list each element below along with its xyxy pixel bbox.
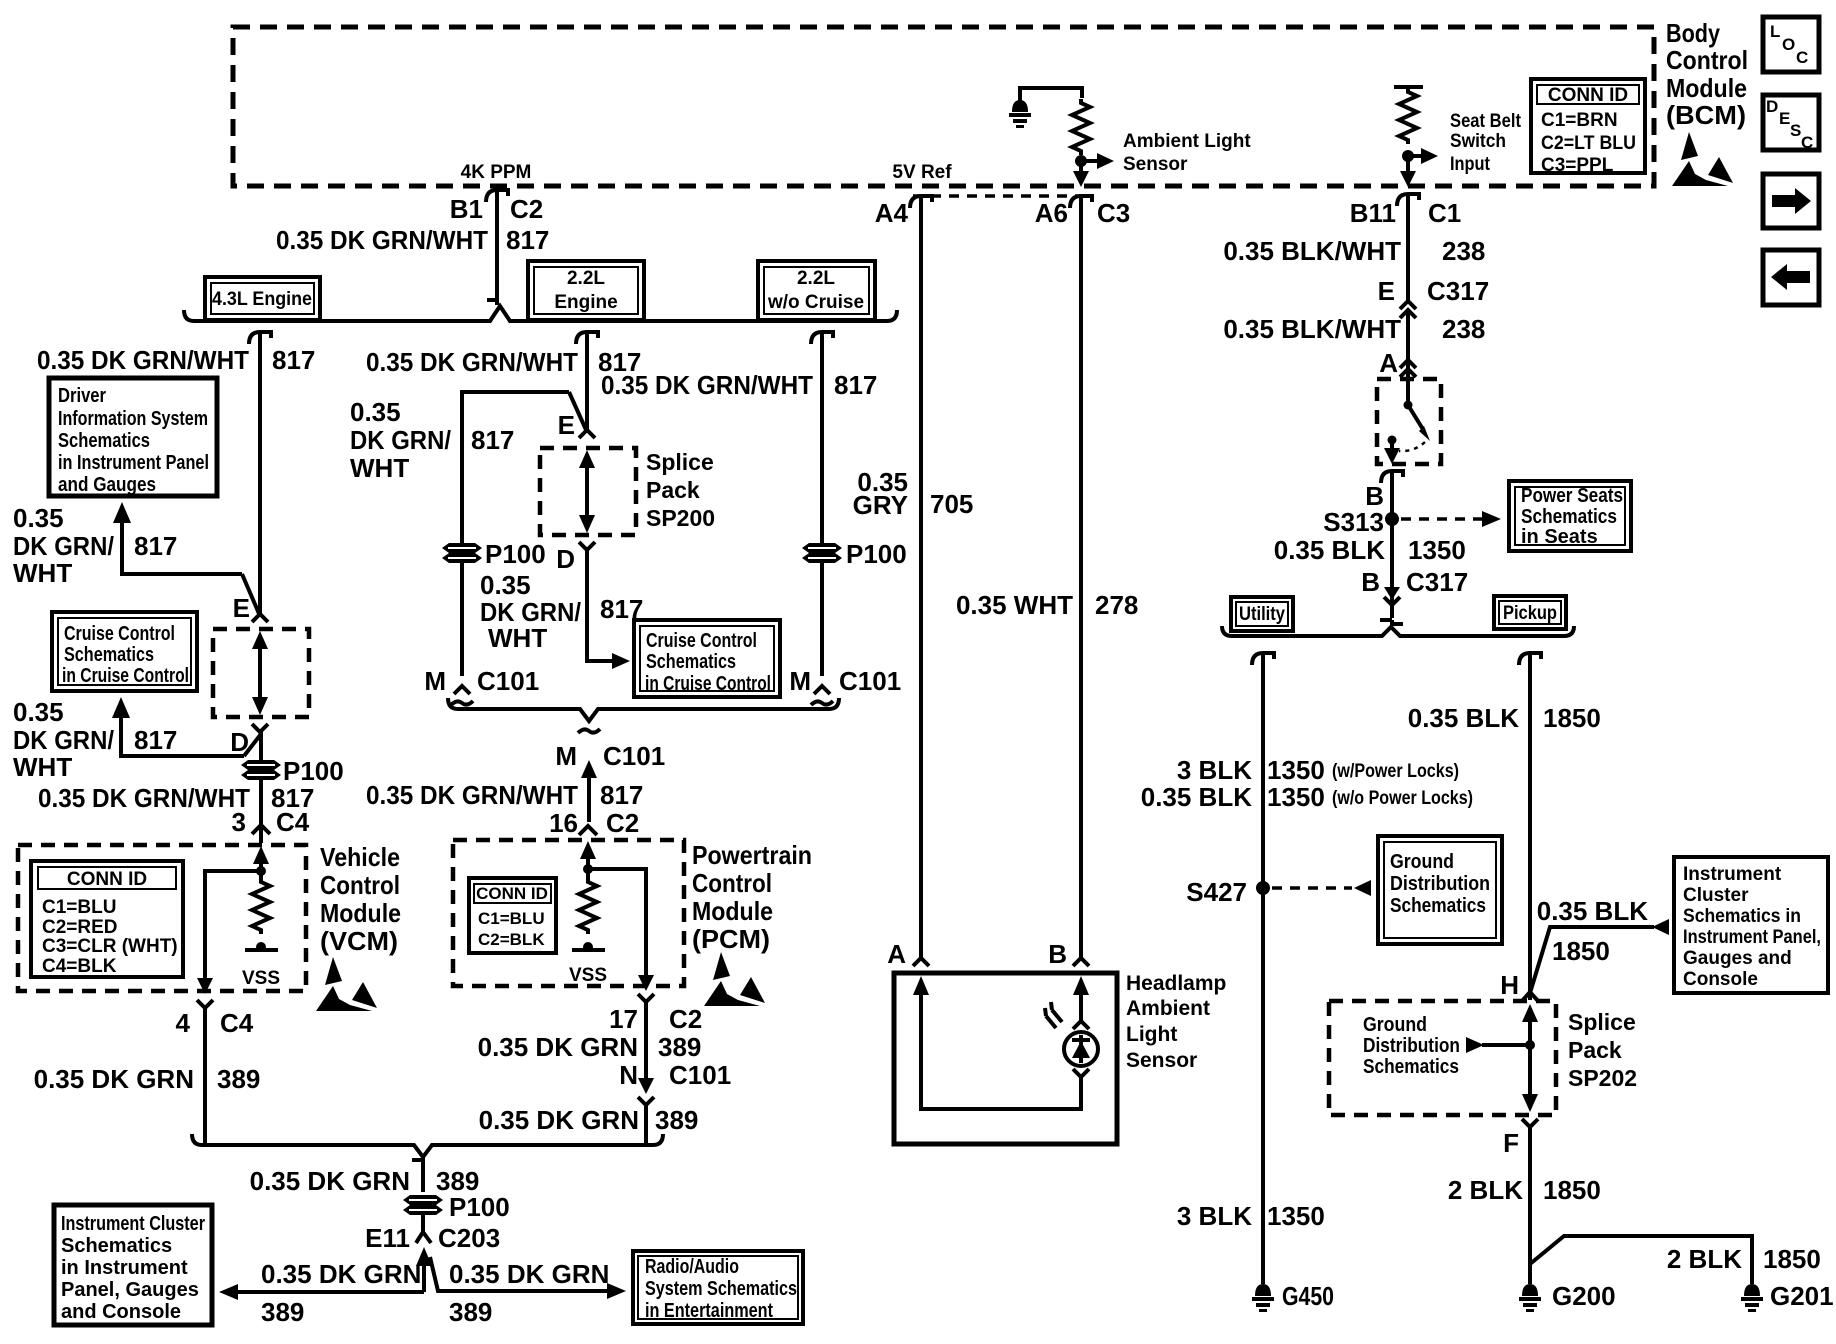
svg-text:(PCM): (PCM)	[692, 924, 770, 954]
svg-text:817: 817	[272, 345, 315, 375]
svg-text:Control: Control	[320, 870, 400, 900]
svg-text:C4: C4	[276, 807, 310, 837]
box Driver Information System Schematics	[49, 378, 217, 496]
svg-text:238: 238	[1442, 236, 1485, 266]
svg-text:Light: Light	[1126, 1023, 1177, 1046]
box Cruise Control Schematics (left)	[52, 612, 197, 691]
node: junction below seat belt resistor	[1402, 150, 1414, 162]
svg-text:389: 389	[658, 1032, 701, 1062]
seat belt switch dashed box	[1377, 379, 1441, 464]
svg-text:Sensor: Sensor	[1123, 154, 1188, 175]
svg-text:C101: C101	[477, 666, 539, 696]
svg-text:Panel, Gauges: Panel, Gauges	[61, 1279, 199, 1301]
svg-text:Schematics: Schematics	[1390, 895, 1486, 917]
svg-text:Utility: Utility	[1239, 604, 1285, 625]
box Utility	[1231, 597, 1293, 631]
svg-text:Splice: Splice	[646, 449, 714, 475]
svg-text:G450: G450	[1282, 1281, 1334, 1311]
brace: C101 gather	[448, 698, 839, 721]
connector fork M/C101 (middle branch)	[451, 686, 473, 705]
corner box right arrow	[1763, 174, 1819, 228]
ESD symbol (BCM)	[1672, 132, 1733, 186]
svg-text:Radio/Audio: Radio/Audio	[645, 1256, 739, 1278]
CONN ID table (PCM)	[469, 878, 556, 953]
chevron below B/C317	[1384, 597, 1400, 618]
svg-text:C317: C317	[1427, 276, 1489, 306]
arrow down at N/C101	[638, 1078, 654, 1094]
node A chevron (headlamp)	[913, 958, 929, 966]
svg-text:S427: S427	[1186, 877, 1247, 907]
wire gather to P100	[412, 1160, 423, 1192]
node: junction below ambient resistor	[1075, 155, 1087, 167]
svg-text:G201: G201	[1770, 1281, 1834, 1311]
ground G200	[1519, 1284, 1541, 1312]
svg-text:Cruise Control: Cruise Control	[646, 630, 757, 652]
svg-text:Seat Belt: Seat Belt	[1450, 111, 1522, 132]
connector P100 grommet (middle branch)	[442, 543, 482, 563]
arrow seat belt switch output	[1384, 440, 1400, 464]
svg-text:Ambient Light: Ambient Light	[1123, 131, 1251, 152]
svg-text:E: E	[1779, 109, 1790, 128]
arrow into Cruise Control box (middle)	[612, 653, 630, 669]
CONN ID table (BCM)	[1531, 79, 1645, 176]
svg-text:C4=BLK: C4=BLK	[42, 956, 117, 977]
wire splice pack SP200 double arrow	[252, 631, 268, 715]
box Instrument Cluster Schematics (bottom left)	[54, 1205, 212, 1325]
headlamp ambient light sensor box	[894, 973, 1117, 1144]
svg-text:B1: B1	[450, 194, 483, 224]
svg-text:Ambient: Ambient	[1126, 997, 1210, 1020]
svg-text:System Schematics: System Schematics	[645, 1278, 797, 1300]
wire VCM input to junction	[259, 860, 263, 880]
svg-text:B: B	[1361, 567, 1380, 597]
node PCM input junction	[583, 864, 593, 874]
resistor: seat belt switch input pull-up	[1399, 88, 1417, 144]
svg-text:(VCM): (VCM)	[320, 926, 398, 956]
svg-text:3 BLK: 3 BLK	[1177, 1201, 1252, 1231]
svg-text:M: M	[789, 666, 811, 696]
wire F to G200	[1528, 1127, 1532, 1284]
svg-text:A: A	[1379, 348, 1398, 378]
connector chevron below N/C101	[638, 1097, 654, 1105]
svg-text:Body: Body	[1666, 18, 1720, 48]
wire branch to VSS output	[205, 871, 261, 980]
box 4.3L Engine	[205, 277, 320, 320]
svg-text:C317: C317	[1406, 567, 1468, 597]
wire VCM output to gather brace	[203, 1008, 207, 1145]
node B chevron (headlamp)	[1073, 958, 1089, 966]
terminal bar VSS (PCM)	[572, 948, 605, 952]
svg-text:0.35: 0.35	[13, 503, 64, 533]
svg-text:VSS: VSS	[569, 965, 607, 986]
svg-text:1850: 1850	[1543, 703, 1601, 733]
resistor VSS (PCM)	[579, 878, 597, 934]
arrow into PCM	[580, 841, 596, 859]
wire ambient resistor to BCM edge with down arrow	[1073, 161, 1089, 187]
svg-text:A4: A4	[875, 198, 909, 228]
wire switch to C317 B	[1390, 471, 1394, 618]
svg-text:Schematics: Schematics	[58, 430, 150, 452]
svg-text:E: E	[558, 410, 575, 440]
svg-text:H: H	[1500, 970, 1519, 1000]
svg-text:CONN ID: CONN ID	[1548, 85, 1628, 106]
wire Utility ground	[1261, 653, 1265, 1284]
svg-text:0.35: 0.35	[350, 397, 401, 427]
arrow up inside box (B leg)	[1073, 976, 1089, 1022]
arrow Ground Distribution into SP202	[1466, 1037, 1530, 1053]
light rays into photodiode	[1045, 1002, 1062, 1028]
svg-text:705: 705	[930, 489, 973, 519]
connector half-lap at brace	[1380, 620, 1403, 624]
svg-text:0.35 BLK/WHT: 0.35 BLK/WHT	[1223, 314, 1401, 344]
svg-text:3: 3	[232, 807, 246, 837]
svg-text:4K PPM: 4K PPM	[461, 162, 532, 183]
svg-text:C1: C1	[1428, 198, 1461, 228]
svg-text:P100: P100	[449, 1192, 510, 1222]
svg-text:0.35 DK GRN: 0.35 DK GRN	[449, 1259, 609, 1289]
svg-text:Distribution: Distribution	[1363, 1035, 1460, 1057]
svg-text:Control: Control	[692, 868, 772, 898]
svg-text:1850: 1850	[1543, 1175, 1601, 1205]
svg-text:B11: B11	[1350, 198, 1396, 228]
svg-text:C4: C4	[220, 1008, 254, 1038]
svg-text:(w/Power Locks): (w/Power Locks)	[1332, 761, 1459, 782]
svg-text:Driver: Driver	[58, 385, 106, 407]
node VSS resistor bottom (PCM)	[583, 942, 593, 952]
dashed arrow S427 to Ground Distribution	[1272, 880, 1371, 896]
svg-text:17: 17	[609, 1004, 638, 1034]
svg-text:B: B	[1048, 939, 1067, 969]
wire diagonal from branch to node D	[244, 734, 261, 756]
svg-text:5V Ref: 5V Ref	[892, 162, 952, 183]
svg-text:817: 817	[134, 725, 177, 755]
wire B1 to brace	[487, 190, 497, 305]
photodiode: headlamp ambient light sensor	[1064, 1032, 1098, 1066]
connector A4	[910, 196, 932, 208]
wire C317 to seat belt switch	[1406, 310, 1410, 404]
svg-text:Schematics: Schematics	[64, 644, 154, 666]
wire A6 sensor signal	[1079, 196, 1083, 958]
svg-text:C3=CLR (WHT): C3=CLR (WHT)	[42, 936, 178, 957]
svg-text:0.35: 0.35	[13, 697, 64, 727]
switch: seat belt	[1388, 401, 1431, 452]
svg-text:389: 389	[217, 1064, 260, 1094]
svg-text:817: 817	[134, 531, 177, 561]
svg-text:2 BLK: 2 BLK	[1448, 1175, 1523, 1205]
svg-text:2.2L: 2.2L	[797, 268, 835, 289]
svg-text:DK GRN/: DK GRN/	[13, 531, 114, 561]
svg-text:0.35 DK GRN/WHT: 0.35 DK GRN/WHT	[601, 370, 813, 400]
svg-text:0.35 BLK/WHT: 0.35 BLK/WHT	[1223, 236, 1401, 266]
connector A double chevron	[1400, 360, 1416, 377]
svg-text:Ground: Ground	[1390, 851, 1454, 873]
connector top of 2.2L wire	[576, 332, 598, 344]
wire 4.3L engine PPM signal	[258, 332, 262, 616]
svg-text:Schematics in: Schematics in	[1683, 906, 1801, 927]
svg-text:in Cruise Control: in Cruise Control	[62, 665, 189, 687]
svg-text:Sensor: Sensor	[1126, 1049, 1197, 1072]
wire ground to ambient resistor	[1020, 88, 1082, 98]
svg-text:SP200: SP200	[646, 505, 715, 531]
svg-text:(w/o Power Locks): (w/o Power Locks)	[1332, 788, 1473, 809]
brace: VSS signal gather	[192, 1134, 663, 1157]
PCM dashed module box	[453, 840, 684, 986]
svg-text:Power Seats: Power Seats	[1521, 485, 1623, 507]
svg-text:M: M	[424, 666, 446, 696]
node SP202 junction	[1525, 1040, 1535, 1050]
svg-text:DK GRN/: DK GRN/	[350, 425, 451, 455]
connector chevron 3/C4	[252, 825, 270, 834]
svg-text:WHT: WHT	[488, 623, 547, 653]
svg-text:C3: C3	[1097, 198, 1130, 228]
node S313	[1385, 512, 1399, 526]
node H chevron	[1522, 992, 1538, 1001]
arrow PCM output down	[638, 975, 654, 991]
svg-text:Schematics: Schematics	[61, 1235, 172, 1257]
svg-text:Cruise Control: Cruise Control	[64, 623, 175, 645]
brace: body style split	[1222, 626, 1574, 636]
wire seat belt resistor to BCM edge with down arrow	[1400, 156, 1416, 187]
svg-text:VSS: VSS	[242, 968, 280, 989]
connector chevron 17/C2	[638, 994, 654, 1002]
svg-text:and Console: and Console	[61, 1301, 181, 1323]
wire 2.2L engine PPM signal	[585, 332, 589, 432]
svg-text:C2: C2	[510, 194, 543, 224]
svg-text:1350: 1350	[1267, 755, 1325, 785]
svg-text:Instrument: Instrument	[1683, 864, 1782, 885]
svg-text:278: 278	[1095, 590, 1138, 620]
svg-text:WHT: WHT	[13, 558, 72, 588]
wire diagonal into node E	[242, 574, 260, 616]
box Instrument Cluster Schematics (right)	[1674, 857, 1828, 993]
svg-text:1850: 1850	[1552, 936, 1610, 966]
node E chevron (middle)	[579, 430, 595, 438]
box Cruise Control Schematics (middle)	[634, 620, 780, 697]
svg-text:A: A	[887, 939, 906, 969]
wire branch left to Instrument Cluster	[230, 1290, 424, 1294]
svg-text:Gauges and: Gauges and	[1683, 948, 1792, 969]
svg-text:O: O	[1782, 35, 1795, 54]
svg-text:Module: Module	[692, 896, 773, 926]
wire D to Cruise Control arrow (middle)	[587, 550, 614, 661]
svg-text:WHT: WHT	[13, 752, 72, 782]
svg-text:in Cruise Control: in Cruise Control	[645, 673, 771, 695]
wire w/o Cruise PPM signal	[820, 332, 824, 676]
svg-text:C101: C101	[669, 1060, 731, 1090]
thin dashed connector face line	[913, 194, 1086, 198]
svg-text:S313: S313	[1323, 507, 1384, 537]
svg-text:Information System: Information System	[58, 408, 208, 430]
dashed arrow S313 to Power Seats	[1401, 511, 1501, 527]
wire N/C101 to gather brace	[644, 1105, 648, 1145]
svg-text:2 BLK: 2 BLK	[1667, 1244, 1742, 1274]
connector P100 grommet (right)	[802, 543, 842, 563]
splice pack SP200 dashed box (left)	[213, 629, 309, 717]
svg-text:0.35 DK GRN/WHT: 0.35 DK GRN/WHT	[37, 345, 249, 375]
svg-text:Headlamp: Headlamp	[1126, 972, 1226, 995]
resistor VSS (VCM)	[252, 878, 270, 934]
svg-text:0.35 BLK: 0.35 BLK	[1141, 782, 1252, 812]
svg-text:E: E	[1378, 276, 1395, 306]
svg-text:Pack: Pack	[646, 477, 700, 503]
arrow into VCM	[253, 846, 269, 864]
VCM dashed module box	[18, 845, 306, 991]
svg-text:817: 817	[506, 225, 549, 255]
ground symbol inside BCM	[1009, 86, 1031, 128]
svg-text:4.3L Engine: 4.3L Engine	[212, 289, 312, 310]
svg-text:Cluster: Cluster	[1683, 885, 1749, 906]
arrow down at B/C317	[1384, 587, 1400, 600]
svg-text:G200: G200	[1552, 1281, 1616, 1311]
svg-text:Input: Input	[1450, 154, 1491, 175]
connector chevron 16/C2	[579, 826, 597, 835]
chevron below photodiode	[1073, 1069, 1089, 1077]
arrow branch up to Cruise Control box (left)	[112, 697, 244, 756]
svg-text:C1=BRN: C1=BRN	[1541, 110, 1618, 131]
corner box DESC	[1763, 95, 1819, 152]
box 2.2L Engine	[528, 261, 644, 320]
box 2.2L w/o Cruise	[758, 261, 875, 320]
box Pickup	[1494, 596, 1566, 629]
wire PCM output to C101	[644, 1002, 648, 1080]
svg-text:w/o Cruise: w/o Cruise	[767, 292, 864, 313]
wire branch to G201	[1530, 1236, 1752, 1284]
arrow branch up to Driver Information box	[113, 502, 242, 574]
svg-text:C1=BLU: C1=BLU	[478, 909, 545, 928]
wire PCM input to junction	[586, 855, 590, 880]
svg-text:16: 16	[549, 808, 578, 838]
box Ground Distribution Schematics (upper)	[1378, 836, 1502, 944]
wire Pickup ground	[1528, 653, 1532, 1000]
corner box LOC	[1763, 17, 1819, 72]
svg-text:SP202: SP202	[1568, 1065, 1637, 1091]
svg-text:in Instrument: in Instrument	[61, 1257, 188, 1279]
wire D to VCM	[259, 732, 263, 843]
svg-text:E11: E11	[365, 1223, 410, 1253]
svg-text:Pack: Pack	[1568, 1037, 1622, 1063]
svg-text:Switch: Switch	[1450, 131, 1506, 152]
svg-text:1350: 1350	[1267, 1201, 1325, 1231]
svg-text:Splice: Splice	[1568, 1009, 1636, 1035]
svg-text:0.35: 0.35	[480, 570, 531, 600]
box Radio/Audio System Schematics	[633, 1251, 803, 1324]
node D chevron (middle)	[579, 542, 595, 550]
svg-text:C2=RED: C2=RED	[42, 917, 118, 938]
connector P100 grommet (left)	[241, 760, 281, 780]
svg-text:D: D	[1766, 97, 1778, 116]
svg-text:D: D	[556, 544, 575, 574]
svg-text:0.35 BLK: 0.35 BLK	[1408, 703, 1519, 733]
svg-text:Module: Module	[1666, 73, 1747, 103]
svg-text:Control: Control	[1666, 45, 1748, 75]
svg-text:389: 389	[436, 1166, 479, 1196]
svg-text:Schematics: Schematics	[1363, 1056, 1459, 1078]
wire branch to Instrument Cluster (1850)	[1530, 927, 1654, 993]
connector top of w/o Cruise wire	[811, 332, 833, 344]
connector C317 double chevron	[1400, 301, 1416, 318]
BCM module dashed outline	[233, 27, 1654, 186]
connector top of Utility wire	[1252, 653, 1274, 665]
svg-text:F: F	[1503, 1128, 1519, 1158]
svg-text:C3=PPL: C3=PPL	[1541, 155, 1614, 176]
connector top of 4.3L wire	[249, 332, 271, 344]
svg-text:and Gauges: and Gauges	[58, 474, 156, 496]
connector fork E11/C203	[416, 1215, 431, 1243]
svg-text:4: 4	[176, 1008, 191, 1038]
svg-text:Schematics: Schematics	[646, 651, 736, 673]
svg-text:DK GRN/: DK GRN/	[13, 725, 114, 755]
svg-text:0.35 DK GRN: 0.35 DK GRN	[34, 1064, 194, 1094]
terminal bar above seat belt resistor	[1394, 85, 1423, 89]
arrow into Instrument Cluster box	[219, 1284, 238, 1300]
svg-text:C203: C203	[438, 1223, 500, 1253]
svg-text:Schematics: Schematics	[1521, 506, 1617, 528]
connector F chevron	[1522, 1119, 1538, 1127]
arrow into Instrument Cluster (right)	[1652, 919, 1669, 935]
svg-text:C101: C101	[839, 666, 901, 696]
wire B11 to C317	[1406, 196, 1410, 300]
svg-text:C101: C101	[603, 741, 665, 771]
svg-text:C2: C2	[606, 808, 639, 838]
wire splice pack SP200 double arrow (middle)	[579, 450, 595, 533]
svg-text:2.2L: 2.2L	[567, 268, 605, 289]
terminal bar VSS	[245, 948, 278, 952]
svg-text:Instrument Cluster: Instrument Cluster	[61, 1213, 205, 1235]
node VSS resistor bottom	[256, 942, 266, 952]
arrow to Ambient Light Sensor label	[1081, 153, 1114, 169]
svg-text:CONN ID: CONN ID	[67, 869, 147, 890]
svg-text:P100: P100	[846, 539, 907, 569]
connector A6	[1070, 196, 1092, 208]
svg-text:P100: P100	[283, 756, 344, 786]
wire branch to P100 leg	[462, 392, 569, 676]
svg-text:0.35 DK GRN/WHT: 0.35 DK GRN/WHT	[366, 347, 578, 377]
svg-text:C1=BLU: C1=BLU	[42, 897, 116, 918]
svg-text:0.35 DK GRN/WHT: 0.35 DK GRN/WHT	[38, 783, 250, 813]
svg-text:817: 817	[471, 425, 514, 455]
node E chevron	[252, 614, 268, 622]
node S427	[1256, 881, 1270, 895]
connector top of Pickup wire	[1519, 653, 1541, 665]
node D chevron	[252, 724, 268, 732]
svg-text:WHT: WHT	[350, 453, 409, 483]
ground G450	[1252, 1284, 1274, 1312]
box Power Seats Schematics in Seats	[1509, 481, 1631, 551]
svg-text:817: 817	[600, 780, 643, 810]
svg-text:Engine: Engine	[554, 292, 617, 313]
svg-text:N: N	[619, 1060, 638, 1090]
svg-text:Module: Module	[320, 898, 401, 928]
svg-text:389: 389	[449, 1297, 492, 1327]
svg-text:Instrument Panel,: Instrument Panel,	[1683, 927, 1821, 948]
svg-text:M: M	[555, 741, 577, 771]
connector chevron 4/C4	[197, 1000, 213, 1008]
arrow into Radio/Audio box	[607, 1283, 626, 1299]
svg-text:0.35 DK GRN: 0.35 DK GRN	[261, 1259, 421, 1289]
node VCM input junction	[256, 866, 266, 876]
ESD symbol (PCM)	[704, 952, 765, 1006]
arrow VCM output down	[197, 978, 213, 994]
arrow up inside box (A leg)	[913, 976, 1081, 1109]
svg-text:0.35 WHT: 0.35 WHT	[956, 590, 1073, 620]
svg-text:238: 238	[1442, 314, 1485, 344]
connector B below switch	[1381, 471, 1403, 483]
svg-text:0.35 BLK: 0.35 BLK	[1274, 535, 1385, 565]
svg-text:C2=LT BLU: C2=LT BLU	[1541, 133, 1636, 154]
svg-text:CONN ID: CONN ID	[476, 884, 548, 903]
svg-text:E: E	[233, 593, 250, 623]
svg-text:389: 389	[261, 1297, 304, 1327]
